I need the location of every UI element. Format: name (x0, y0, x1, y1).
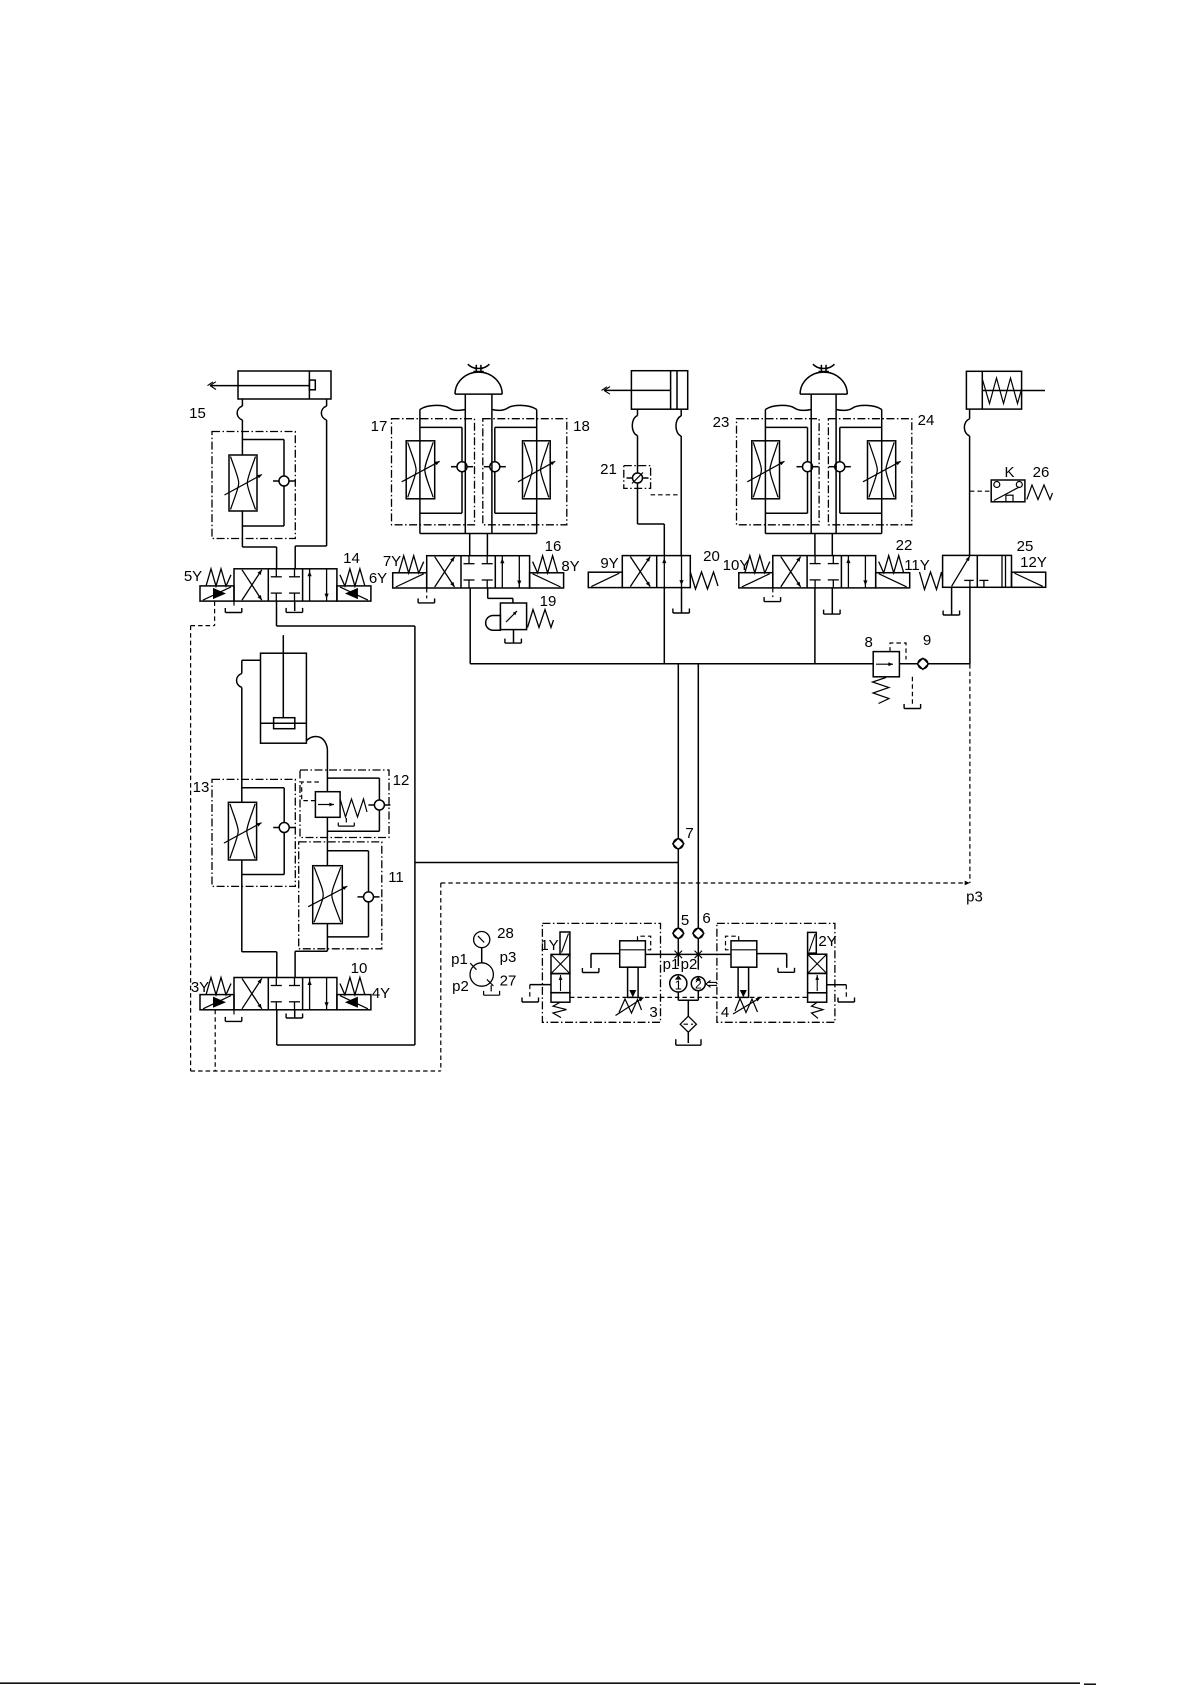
svg-text:15: 15 (189, 405, 206, 422)
svg-text:23: 23 (713, 414, 730, 431)
svg-text:p1: p1 (663, 956, 680, 973)
block13 throttle (241, 788, 243, 803)
valve 14 (4/3 solenoid valve) (234, 569, 337, 601)
valve 25 body (943, 555, 1012, 587)
block18 check valve (490, 462, 500, 472)
flow-control block 15 (dash-dot box) (212, 432, 295, 539)
block15 check valve (279, 476, 289, 486)
valve1Y side port (530, 984, 551, 986)
cylinder C4 (top-right, spring return) (966, 371, 1021, 409)
wire through block12 (326, 770, 328, 792)
motor M1 neck (464, 394, 466, 409)
valve14 tank port (294, 601, 296, 611)
valve 22 (4/3 solenoid valve) (773, 556, 876, 588)
svg-text:12Y: 12Y (1020, 554, 1047, 571)
pilot wire from 5Y (dashed) (214, 601, 216, 625)
pilot wire bottom (dashed) (191, 1070, 441, 1072)
wire valve14 A out (276, 601, 278, 626)
riser p2 line (697, 664, 699, 928)
svg-text:18: 18 (573, 418, 590, 435)
motor M1 body (420, 405, 465, 410)
wire check21 to valve20 (637, 483, 639, 524)
pump sub-block 4 (dash-dot box) (717, 923, 835, 1022)
svg-text:26: 26 (1033, 464, 1050, 481)
svg-text:27: 27 (500, 973, 517, 990)
wire M2 to valve22 ports (814, 534, 816, 556)
valve 20 body (622, 556, 690, 588)
block15 bypass loop wire (242, 439, 284, 441)
svg-text:9Y: 9Y (600, 555, 618, 572)
wire relief3 sense (645, 953, 678, 955)
relief4 pilot (dashed) (726, 936, 739, 950)
wire C3 bottom port (306, 737, 327, 751)
block12 check branch (327, 777, 379, 779)
svg-text:1: 1 (675, 978, 682, 993)
suction filter (680, 1016, 696, 1032)
wire C2 right port (680, 409, 682, 416)
svg-text:p3: p3 (966, 889, 983, 906)
svg-text:p2: p2 (681, 956, 698, 973)
svg-text:8Y: 8Y (561, 558, 579, 575)
relief3 drain (591, 953, 620, 955)
svg-text:20: 20 (703, 548, 720, 565)
svg-text:11: 11 (388, 869, 404, 886)
svg-text:12: 12 (393, 772, 410, 789)
block17 check valve (457, 462, 467, 472)
motor M2 dome (800, 372, 847, 394)
svg-text:K: K (1004, 464, 1014, 481)
flow-control block 13 (dash-dot box) (212, 779, 295, 886)
svg-text:25: 25 (1017, 538, 1034, 555)
block18 throttle (523, 441, 551, 499)
wire M1 to valve16 ports (469, 534, 471, 556)
motor M1 mount symbol (475, 365, 477, 372)
svg-text:4: 4 (721, 1004, 729, 1021)
svg-text:5Y: 5Y (184, 568, 202, 585)
svg-text:21: 21 (600, 461, 617, 478)
block 18 (dash-dot box) (483, 419, 567, 525)
junction mark p2 (695, 951, 703, 959)
pilot wire to K26 (dashed) (970, 490, 991, 492)
pump 2 (691, 977, 705, 991)
wire C1 right to valve14 port B (295, 545, 326, 547)
pressure switch K 26 (991, 480, 1025, 502)
relief4 drain (757, 953, 787, 955)
gauge 28 (474, 932, 490, 948)
relief8 pilot (dashed) (890, 643, 906, 660)
pump 1 (670, 975, 687, 992)
valve22 tank port (831, 588, 833, 615)
valve14 pilot drain bracket (233, 601, 235, 608)
svg-text:19: 19 (540, 593, 557, 610)
wire C4 port (969, 409, 971, 419)
check21 pilot line (dashed) (651, 494, 682, 496)
valve25 tank port (951, 587, 953, 615)
svg-text:22: 22 (896, 537, 913, 554)
block11 loop wire (327, 850, 368, 852)
cylinder C3 (vertical) (261, 653, 307, 743)
svg-text:11Y: 11Y (904, 557, 930, 574)
svg-text:10Y: 10Y (723, 557, 750, 574)
svg-text:3Y: 3Y (191, 979, 209, 996)
flow-control block 11 (dash-dot box) (299, 842, 382, 949)
unloading valve 1Y (560, 932, 570, 954)
block 23 (dash-dot box) (737, 419, 820, 525)
wire valve20 to main line (663, 588, 665, 664)
node 5 (673, 928, 684, 939)
valve10 pilot drain bracket (233, 1010, 235, 1017)
svg-text:7Y: 7Y (383, 553, 401, 570)
wire C3 rod-side port (242, 659, 261, 661)
valve2Y side port (827, 984, 847, 986)
wire valve25 down to main line (969, 587, 971, 664)
block13 loop wire (242, 787, 284, 789)
valve16 pilot drain bracket (426, 588, 428, 598)
block 17 (dash-dot box) (392, 419, 475, 525)
svg-text:6Y: 6Y (369, 570, 387, 587)
wire block11 to valve10 (295, 950, 327, 952)
riser p1 line (677, 664, 679, 838)
wire relief4 sense (698, 953, 731, 955)
pump suction manifold (677, 992, 679, 1000)
pump sub-block 3 (dash-dot box) (542, 923, 660, 1022)
valve19 drain (513, 630, 515, 643)
wire C1 right port (326, 399, 328, 406)
gauge stem (481, 948, 483, 963)
wire valve16 A to main line (469, 588, 471, 664)
relief3 pilot (dashed) (638, 936, 651, 950)
block15 throttle (241, 440, 243, 456)
pump2 variable arrow (709, 981, 718, 983)
junction mark p1 (675, 951, 683, 959)
pilot relief valve 19 (500, 603, 526, 630)
node 6 (693, 928, 704, 939)
relief valve 4 (731, 941, 757, 967)
wire valve16 B to pilot valve 19 (487, 588, 489, 598)
valve 10 (4/3 solenoid valve) (234, 978, 337, 1010)
block11 throttle (326, 842, 328, 866)
valve 16 (4/3 solenoid valve) (427, 556, 530, 588)
measuring selector 27 (470, 963, 493, 986)
svg-text:p2: p2 (452, 978, 469, 995)
svg-text:10: 10 (351, 960, 368, 977)
relief valve 3 (620, 941, 646, 967)
block24 check valve (835, 462, 845, 472)
node 7 (673, 838, 684, 849)
check valve 21 (dash-dot box) (624, 466, 651, 489)
svg-text:3: 3 (649, 1004, 657, 1021)
wire C2 left port (637, 409, 639, 415)
main collector line (470, 663, 873, 665)
block17 throttle (406, 441, 435, 499)
block12 relief valve (315, 792, 340, 818)
wire valve22 A to main line (814, 588, 816, 664)
svg-text:28: 28 (497, 925, 514, 942)
svg-text:8: 8 (865, 634, 873, 651)
svg-text:14: 14 (343, 550, 360, 567)
block23 check valve (803, 462, 813, 472)
block13 check valve (279, 823, 289, 833)
svg-text:p1: p1 (451, 951, 468, 968)
svg-text:6: 6 (702, 910, 710, 927)
block18 loop wire (495, 426, 537, 428)
motor M2 mount symbol (820, 365, 822, 372)
svg-text:2Y: 2Y (818, 933, 836, 950)
block23 loop wire (765, 426, 807, 428)
cylinder C2 (top-center, horizontal) (631, 371, 687, 410)
block11 check valve (364, 892, 374, 902)
svg-text:13: 13 (193, 779, 210, 796)
valve22 pilot drain bracket (772, 588, 774, 597)
block17 loop wire (420, 426, 462, 428)
block12 pilot (dashed) (302, 782, 321, 801)
check21 ball (633, 473, 643, 483)
block12 check valve (374, 800, 384, 810)
check valve 9 (917, 658, 928, 669)
wire valve10 A loop (276, 1010, 278, 1045)
motor M2 neck (810, 394, 812, 409)
pilot wire from 3Y (dashed) (214, 1010, 216, 1071)
pilot wire right rise (dashed) (440, 883, 442, 1071)
wire p-line between risers (678, 953, 698, 955)
block 24 (dash-dot box) (828, 419, 911, 525)
pilot wire p3 drop (dashed) (969, 664, 971, 883)
block24 throttle (868, 441, 896, 499)
relief valve 8 (873, 652, 899, 677)
unloading valve 2Y (808, 932, 817, 953)
overcenter block 12 (dash-dot box) (300, 770, 389, 838)
svg-text:7: 7 (685, 825, 693, 842)
tank (reservoir) (687, 1032, 689, 1043)
wire block13 to valve10 (242, 951, 277, 953)
svg-text:9: 9 (923, 632, 931, 649)
wire feed to lower section (415, 862, 678, 864)
svg-text:24: 24 (918, 412, 935, 429)
relief8 drain (dashed) (911, 677, 913, 704)
svg-text:1Y: 1Y (540, 937, 558, 954)
page edge mark (0, 1682, 1080, 1684)
svg-text:17: 17 (371, 418, 388, 435)
valve10 tank port (294, 1010, 296, 1018)
svg-text:2: 2 (695, 978, 702, 992)
block23 throttle (752, 441, 780, 499)
svg-text:p3: p3 (500, 949, 517, 966)
pilot wire to p3 (dashed) (441, 882, 963, 884)
motor M2 body (765, 405, 811, 410)
block24 loop wire (840, 426, 882, 428)
cylinder C1 (top-left, horizontal) (238, 371, 331, 399)
wire C1 left port (241, 399, 243, 406)
svg-text:16: 16 (545, 538, 562, 555)
pilot wire left drop (dashed) (190, 626, 192, 1071)
wire block15 to valve14 port A (242, 546, 276, 548)
pilot dashed crossline (570, 996, 808, 998)
motor M1 dome (455, 372, 502, 394)
valve20 tank port (681, 588, 683, 614)
svg-text:4Y: 4Y (372, 985, 390, 1002)
svg-text:5: 5 (681, 912, 689, 929)
